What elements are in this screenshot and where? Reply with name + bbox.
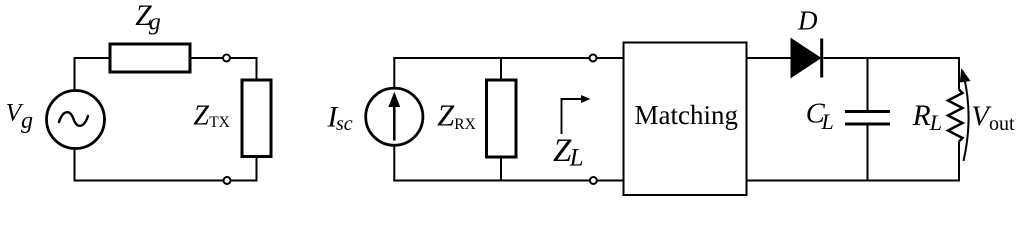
impedance Z_TX (242, 80, 271, 157)
svg-text:Matching: Matching (635, 100, 738, 130)
diode D (791, 39, 822, 78)
arrow Vout (across load) (960, 68, 971, 161)
wire: matching box to diode anode (747, 57, 792, 59)
wire: R_L bottom stub (958, 142, 960, 182)
voltage source Vg (47, 91, 105, 149)
node: RX port top terminal (590, 55, 597, 62)
matching network box U1 (624, 43, 747, 196)
current source Isc (366, 88, 423, 145)
label C_L (806, 98, 834, 134)
svg-text:g: g (149, 10, 161, 36)
resistor R_L (948, 90, 963, 142)
svg-text:D: D (797, 6, 818, 36)
node: RX port bottom terminal (590, 177, 597, 184)
wire: top terminal to Z_TX top (231, 58, 257, 80)
wire: bottom terminal back to Vg (75, 148, 224, 180)
wire: Isc top to top rail (393, 58, 395, 88)
wire: Isc bottom to bottom rail (393, 145, 395, 181)
wire: Vg top to Zg (75, 58, 111, 91)
wire: bottom rail from Isc to matching box (393, 180, 623, 182)
label Zg (135, 0, 161, 35)
svg-text:sc: sc (336, 113, 353, 135)
impedance Zg (110, 44, 190, 72)
wire: R_L top stub (958, 57, 960, 90)
label Vout (971, 102, 1015, 135)
wire: Z_RX bottom stub (500, 157, 502, 181)
node: TX port bottom terminal (224, 177, 231, 184)
label R_L (912, 100, 942, 135)
svg-text:L: L (821, 109, 834, 134)
label Vg (6, 98, 33, 135)
svg-text:L: L (929, 110, 942, 135)
label Isc (327, 102, 353, 135)
label Z_RX (437, 99, 476, 133)
wire: bottom rail from matching box to R_L (747, 180, 961, 182)
svg-text:R: R (912, 100, 931, 132)
wire: top rail from Isc to matching box (393, 57, 623, 59)
node: TX port top terminal (223, 55, 230, 62)
wire: Z_RX top stub (500, 58, 502, 80)
wire: C_L top stub (867, 58, 869, 110)
svg-text:Z: Z (437, 99, 455, 133)
wire: Zg to top terminal (190, 57, 223, 59)
svg-text:RX: RX (454, 116, 476, 133)
impedance Z_RX (487, 80, 517, 157)
svg-text:Z: Z (193, 100, 209, 131)
svg-text:out: out (989, 113, 1015, 135)
label Z_L (553, 133, 584, 171)
wire: C_L bottom stub (867, 126, 869, 181)
svg-text:g: g (21, 108, 33, 134)
svg-text:TX: TX (209, 114, 230, 131)
label Z_TX (193, 100, 229, 131)
svg-text:L: L (569, 144, 584, 171)
wire: diode cathode to output node (824, 57, 961, 59)
node Z_L (looking-in impedance arrow) (562, 95, 591, 134)
capacitor C_L (845, 112, 890, 125)
wire: Z_TX bottom to bottom terminal (231, 157, 257, 181)
